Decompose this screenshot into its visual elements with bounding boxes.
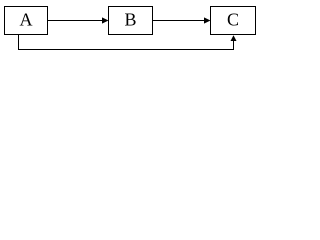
svg-text:A: A — [20, 10, 33, 30]
svg-text:C: C — [227, 10, 239, 30]
svg-text:B: B — [124, 10, 136, 30]
